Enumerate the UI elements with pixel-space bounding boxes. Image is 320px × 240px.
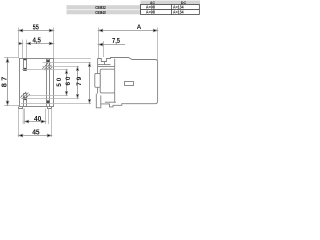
svg-text:50: 50 [56, 77, 63, 86]
svg-text:A=134: A=134 [173, 10, 184, 15]
svg-text:55: 55 [33, 23, 39, 32]
svg-text:7,5: 7,5 [112, 36, 120, 45]
svg-text:A=98: A=98 [146, 10, 156, 15]
svg-text:79: 79 [76, 76, 83, 85]
svg-text:4,5: 4,5 [32, 35, 41, 44]
svg-text:A: A [137, 24, 142, 31]
svg-text:CEM40: CEM40 [95, 10, 106, 15]
svg-text:45: 45 [32, 128, 39, 137]
svg-text:60: 60 [65, 76, 72, 85]
svg-text:40: 40 [34, 114, 41, 123]
